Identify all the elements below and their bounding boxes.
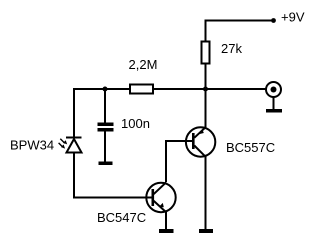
svg-text:BC557C: BC557C — [226, 140, 275, 155]
svg-text:100n: 100n — [121, 116, 150, 131]
svg-text:+9V: +9V — [281, 10, 305, 25]
svg-text:27k: 27k — [221, 41, 242, 56]
svg-text:2,2M: 2,2M — [129, 57, 158, 72]
svg-text:BPW34: BPW34 — [10, 138, 54, 153]
svg-text:BC547C: BC547C — [97, 210, 146, 225]
